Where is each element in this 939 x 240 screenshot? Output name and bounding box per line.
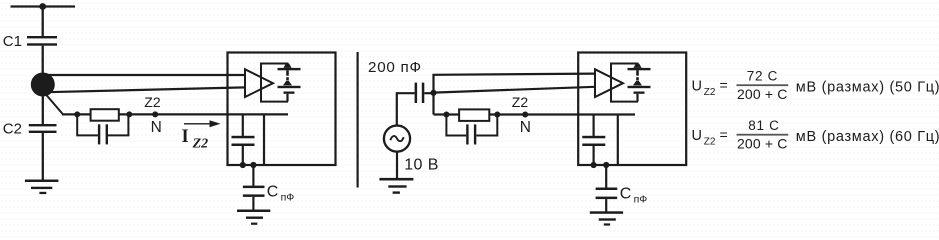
svg-text:Z2: Z2 xyxy=(192,137,209,152)
svg-text:Z2: Z2 xyxy=(512,94,529,110)
svg-text:81 C: 81 C xyxy=(748,118,779,133)
separator line xyxy=(357,52,359,188)
svg-text:200 пФ: 200 пФ xyxy=(368,59,422,76)
capacitor inside box (left) xyxy=(232,114,255,165)
ground under source xyxy=(379,178,413,194)
capacitor C2 xyxy=(29,124,57,133)
junction dot right of resistor xyxy=(126,111,132,117)
svg-text:пФ: пФ xyxy=(634,194,648,206)
wire: top antenna stub xyxy=(11,5,76,7)
wire: node down to C2 xyxy=(42,93,44,125)
AC source G1 circle xyxy=(384,126,410,152)
junction dot on top stub xyxy=(39,3,46,10)
IC box U2 (right) xyxy=(578,53,686,166)
label Cpf (left) xyxy=(267,183,294,203)
wire: Z2 net horizontal xyxy=(62,113,288,115)
wire: C1 to summing node xyxy=(42,46,44,76)
wire: Z2 net horizontal (right) xyxy=(434,113,636,115)
capacitor C of parallel RC xyxy=(77,114,128,144)
capacitor inside box (right) xyxy=(582,115,605,166)
svg-text:C: C xyxy=(620,185,632,202)
ground under Cpf (right) xyxy=(590,211,623,225)
svg-text:Z2: Z2 xyxy=(144,94,161,110)
svg-text:200 + C: 200 + C xyxy=(737,86,787,102)
wire: source to coupling capacitor xyxy=(397,93,415,126)
svg-text:C1: C1 xyxy=(3,33,22,50)
junction dot left of resistor xyxy=(74,111,80,117)
IC box U1 (left) xyxy=(228,53,336,166)
AC source tilde xyxy=(390,136,403,141)
capacitor C1 xyxy=(27,36,57,46)
wire: C2 to ground xyxy=(42,133,44,181)
junction dot at source branch xyxy=(430,90,436,96)
label Cpf (right) xyxy=(620,185,647,205)
wire: junction down to Z2 net (right) xyxy=(432,93,434,115)
ground under C2 xyxy=(25,180,59,195)
feedback loop wire (right) xyxy=(611,64,638,102)
svg-text:=: = xyxy=(720,127,728,143)
svg-text:U: U xyxy=(692,128,702,144)
resistor R of parallel RC xyxy=(91,109,119,121)
MOSFET symbol Q2 (right) xyxy=(628,64,651,102)
svg-text:C: C xyxy=(267,183,279,200)
wire: junction to amplifier input 2 (right) xyxy=(434,87,596,93)
ground under Cpf (left) xyxy=(237,210,270,225)
junction dot on box bottom 1 (right) xyxy=(591,162,597,168)
svg-text:мВ (размах) (50 Гц): мВ (размах) (50 Гц) xyxy=(796,79,939,95)
svg-text:U: U xyxy=(692,79,702,95)
node N dot (left) xyxy=(152,111,158,117)
junction dot on box bottom 2 (right) xyxy=(603,162,609,168)
svg-text:Z2: Z2 xyxy=(704,87,716,98)
wire: Z2 net to box bottom (right) xyxy=(617,115,619,166)
wire: Z2 net to box bottom (left) xyxy=(263,114,265,165)
coupling capacitor 200pF plates xyxy=(415,83,425,103)
svg-text:пФ: пФ xyxy=(281,192,295,204)
wire: box bottom to Cpf (right) xyxy=(605,165,607,188)
svg-text:N: N xyxy=(520,119,531,136)
wire: node to amplifier input 2 xyxy=(46,87,245,92)
wire: coupling capacitor to junction xyxy=(424,92,433,94)
svg-text:200 + C: 200 + C xyxy=(737,136,787,152)
feedback loop wire (left) xyxy=(261,64,288,102)
formula 1: U_Z2 = 72C/(200+C) mV xyxy=(692,69,939,102)
capacitor Cpf (left) xyxy=(243,186,265,210)
wire: junction up and to amplifier input 1 (right) xyxy=(434,74,596,93)
svg-text:72 C: 72 C xyxy=(747,69,778,84)
node N dot (right) xyxy=(522,112,528,118)
op-amp A2 triangle (right) xyxy=(595,69,623,97)
resistor R of parallel RC (right) xyxy=(459,109,489,121)
op-amp A1 triangle (left) xyxy=(245,69,273,97)
MOSFET symbol Q1 (left) xyxy=(278,64,301,102)
arrow I_Z2 xyxy=(184,120,221,127)
svg-text:=: = xyxy=(720,77,728,93)
svg-text:10 В: 10 В xyxy=(404,157,439,174)
node: large summing junction xyxy=(31,73,55,97)
wire: box bottom to Cpf (left) xyxy=(252,165,254,186)
svg-text:N: N xyxy=(151,119,162,136)
junction dot on box bottom 2 (left) xyxy=(250,162,256,168)
label I_Z2 xyxy=(182,127,209,151)
svg-text:Z2: Z2 xyxy=(704,137,716,148)
svg-text:C2: C2 xyxy=(3,121,22,138)
capacitor C of parallel RC (right) xyxy=(446,115,497,145)
wire: node to amplifier input 1 xyxy=(46,74,245,76)
formula 2: U_Z2 = 81C/(200+C) mV xyxy=(692,118,939,151)
wire: diagonal from node to Z2 net xyxy=(46,94,64,114)
svg-text:I: I xyxy=(182,127,189,147)
svg-text:мВ (размах) (60 Гц): мВ (размах) (60 Гц) xyxy=(796,129,939,145)
junction dot right of resistor (right) xyxy=(494,112,500,118)
junction dot on box bottom 1 (left) xyxy=(240,162,246,168)
wire: source to ground xyxy=(396,151,398,178)
wire: top stub down to C1 xyxy=(42,7,44,37)
capacitor Cpf (right) xyxy=(596,188,618,212)
junction dot left of resistor (right) xyxy=(443,112,449,118)
